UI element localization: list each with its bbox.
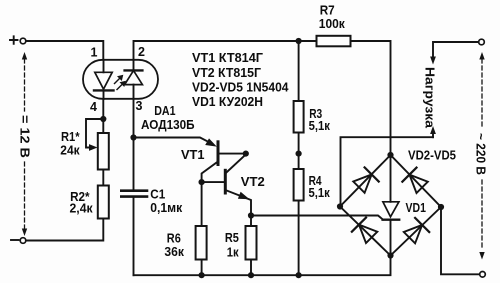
node bridge right dot bbox=[438, 204, 444, 210]
transistor VT1 bbox=[202, 142, 246, 182]
svg-text:3: 3 bbox=[136, 99, 143, 113]
resistor R2 bbox=[98, 186, 109, 219]
node pin3 dot bbox=[130, 134, 136, 140]
svg-text:5,1к: 5,1к bbox=[309, 185, 331, 200]
load return wire to bridge left bbox=[341, 137, 434, 206]
optocoupler DA1 body bbox=[83, 60, 158, 99]
node =12V dashed arrow bbox=[22, 52, 27, 236]
node VT2 collector dot bbox=[243, 151, 249, 157]
wire R6 to bottom bus bbox=[201, 260, 203, 276]
svg-text:24к: 24к bbox=[60, 142, 80, 157]
optocoupler LED bbox=[94, 60, 114, 99]
wire pin3 node to VT1 emitter bbox=[134, 138, 208, 142]
node top bus dot bbox=[296, 38, 302, 44]
node R5 bottom dot bbox=[248, 272, 254, 278]
wire - terminal to R2 bottom bbox=[26, 219, 103, 241]
light arrows bbox=[115, 75, 126, 90]
wire pin4 to R1 bbox=[102, 99, 104, 133]
wire 220V bottom to bridge right bbox=[441, 207, 480, 274]
terminal - (12V minus) bbox=[11, 238, 26, 244]
svg-text:= 12 В: = 12 В bbox=[18, 115, 33, 158]
diode VD3 top-right arm bbox=[402, 168, 427, 193]
svg-text:1к: 1к bbox=[227, 245, 239, 260]
node VT1 collector dot bbox=[199, 179, 205, 185]
optocoupler photodiode bbox=[125, 60, 143, 99]
node R3/R4 dot bbox=[296, 151, 302, 157]
wire 220V top to load arrow bbox=[433, 42, 479, 57]
top bus pin2 to R7 bbox=[134, 41, 317, 60]
bottom bus bbox=[134, 256, 391, 276]
wire R7 to bridge top bbox=[351, 41, 391, 155]
svg-text:1: 1 bbox=[91, 46, 98, 60]
terminal 220V bottom bbox=[480, 272, 486, 278]
svg-text:~ 220 В: ~ 220 В bbox=[474, 133, 489, 175]
thyristor VD1 bbox=[383, 155, 400, 256]
terminal + (12V plus) bbox=[10, 36, 26, 44]
svg-text:VT1: VT1 bbox=[181, 147, 205, 162]
wire R5 to bottom bus bbox=[250, 260, 252, 276]
wire pin3 down to C1 bbox=[133, 99, 135, 190]
svg-text:АОД130Б: АОД130Б bbox=[141, 117, 195, 132]
transistor VT2 bbox=[202, 155, 251, 216]
diode VD4 bottom-left arm bbox=[352, 218, 377, 243]
resistor R1 (with preset arrow) bbox=[86, 119, 109, 170]
svg-text:R5: R5 bbox=[225, 230, 239, 245]
svg-text:2: 2 bbox=[138, 45, 145, 59]
bridge frame wires bbox=[340, 155, 441, 256]
node pin4 dot bbox=[100, 116, 106, 122]
svg-text:VD1: VD1 bbox=[406, 200, 426, 215]
resistor R3 bbox=[294, 101, 304, 133]
parts list text block bbox=[192, 50, 289, 109]
wire R3 to node bbox=[298, 133, 300, 170]
svg-text:4: 4 bbox=[90, 100, 97, 114]
node ~220V dashed arrow bbox=[479, 52, 484, 260]
terminal 220V top bbox=[479, 39, 485, 45]
node bridge top dot bbox=[387, 152, 393, 158]
svg-text:VD2-VD5 1N5404: VD2-VD5 1N5404 bbox=[192, 79, 289, 94]
resistor R4 bbox=[294, 169, 304, 201]
wire + terminal to pin1 bbox=[26, 41, 103, 60]
svg-text:DA1: DA1 bbox=[154, 103, 175, 118]
svg-text:5,1к: 5,1к bbox=[309, 118, 331, 133]
node VT2 emitter dot bbox=[248, 212, 254, 218]
svg-text:VT2 КТ815Г: VT2 КТ815Г bbox=[192, 65, 262, 80]
svg-text:100к: 100к bbox=[319, 16, 345, 31]
svg-text:VD1 КУ202Н: VD1 КУ202Н bbox=[192, 94, 263, 109]
wire R4 to bottom bus bbox=[298, 201, 300, 276]
capacitor C1 bbox=[121, 191, 147, 276]
node R4 bottom dot bbox=[296, 272, 302, 278]
wire top bus to R3 bbox=[298, 41, 300, 101]
svg-text:VT1 КТ814Г: VT1 КТ814Г bbox=[192, 50, 264, 65]
node R6 bottom dot bbox=[199, 272, 205, 278]
resistor R7 bbox=[317, 36, 351, 47]
svg-text:VD2-VD5: VD2-VD5 bbox=[408, 147, 456, 162]
svg-text:2,4к: 2,4к bbox=[70, 200, 94, 215]
diode VD5 bottom-right arm bbox=[404, 218, 429, 243]
diode VD2 top-left arm bbox=[353, 167, 378, 192]
svg-text:VT2: VT2 bbox=[241, 174, 265, 189]
svg-text:Нагрузка: Нагрузка bbox=[423, 67, 438, 129]
svg-text:0,1мк: 0,1мк bbox=[150, 200, 182, 215]
wire VT2 emitter to R5 bbox=[250, 216, 252, 227]
node bridge bottom dot bbox=[387, 252, 393, 258]
gate wire VT2 emitter to VD1 bbox=[251, 216, 383, 220]
wire VT1 collector to R6 bbox=[201, 182, 203, 226]
node bridge left dot bbox=[337, 203, 343, 209]
svg-text:36к: 36к bbox=[164, 244, 184, 259]
resistor R6 bbox=[196, 226, 207, 260]
wire R1 to R2 bbox=[102, 170, 104, 186]
resistor R5 bbox=[246, 226, 257, 260]
